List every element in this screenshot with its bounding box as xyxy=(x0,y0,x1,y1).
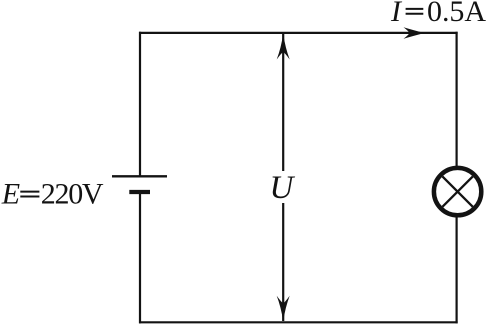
svg-text:220V: 220V xyxy=(41,178,104,211)
svg-text:0.5A: 0.5A xyxy=(427,0,486,28)
wire left upper (top corner to battery long plate) xyxy=(139,32,141,177)
voltage arrow shaft lower xyxy=(282,203,284,321)
voltage arrow shaft upper xyxy=(282,34,284,171)
lamp X diagonal 1 xyxy=(442,176,472,206)
svg-text:E: E xyxy=(1,178,20,211)
equals sign of I=0.5A xyxy=(406,8,424,10)
wire bottom xyxy=(139,321,458,323)
equals sign of E=220V xyxy=(20,191,39,193)
battery short plate (negative) xyxy=(129,190,150,194)
battery long plate (positive) xyxy=(112,175,167,177)
lamp X diagonal 2 xyxy=(442,176,472,206)
wire right upper (top corner to lamp) xyxy=(456,32,458,166)
svg-text:U: U xyxy=(270,170,296,206)
wire top xyxy=(139,32,458,34)
svg-text:I: I xyxy=(390,0,403,28)
voltage arrowhead up xyxy=(277,34,290,60)
current arrowhead on top wire xyxy=(404,27,425,39)
voltage arrowhead down xyxy=(277,296,290,322)
lamp EL circle xyxy=(434,168,481,215)
wire left lower (battery short plate to bottom corner) xyxy=(139,192,141,324)
wire right lower (lamp to bottom corner) xyxy=(456,217,458,323)
